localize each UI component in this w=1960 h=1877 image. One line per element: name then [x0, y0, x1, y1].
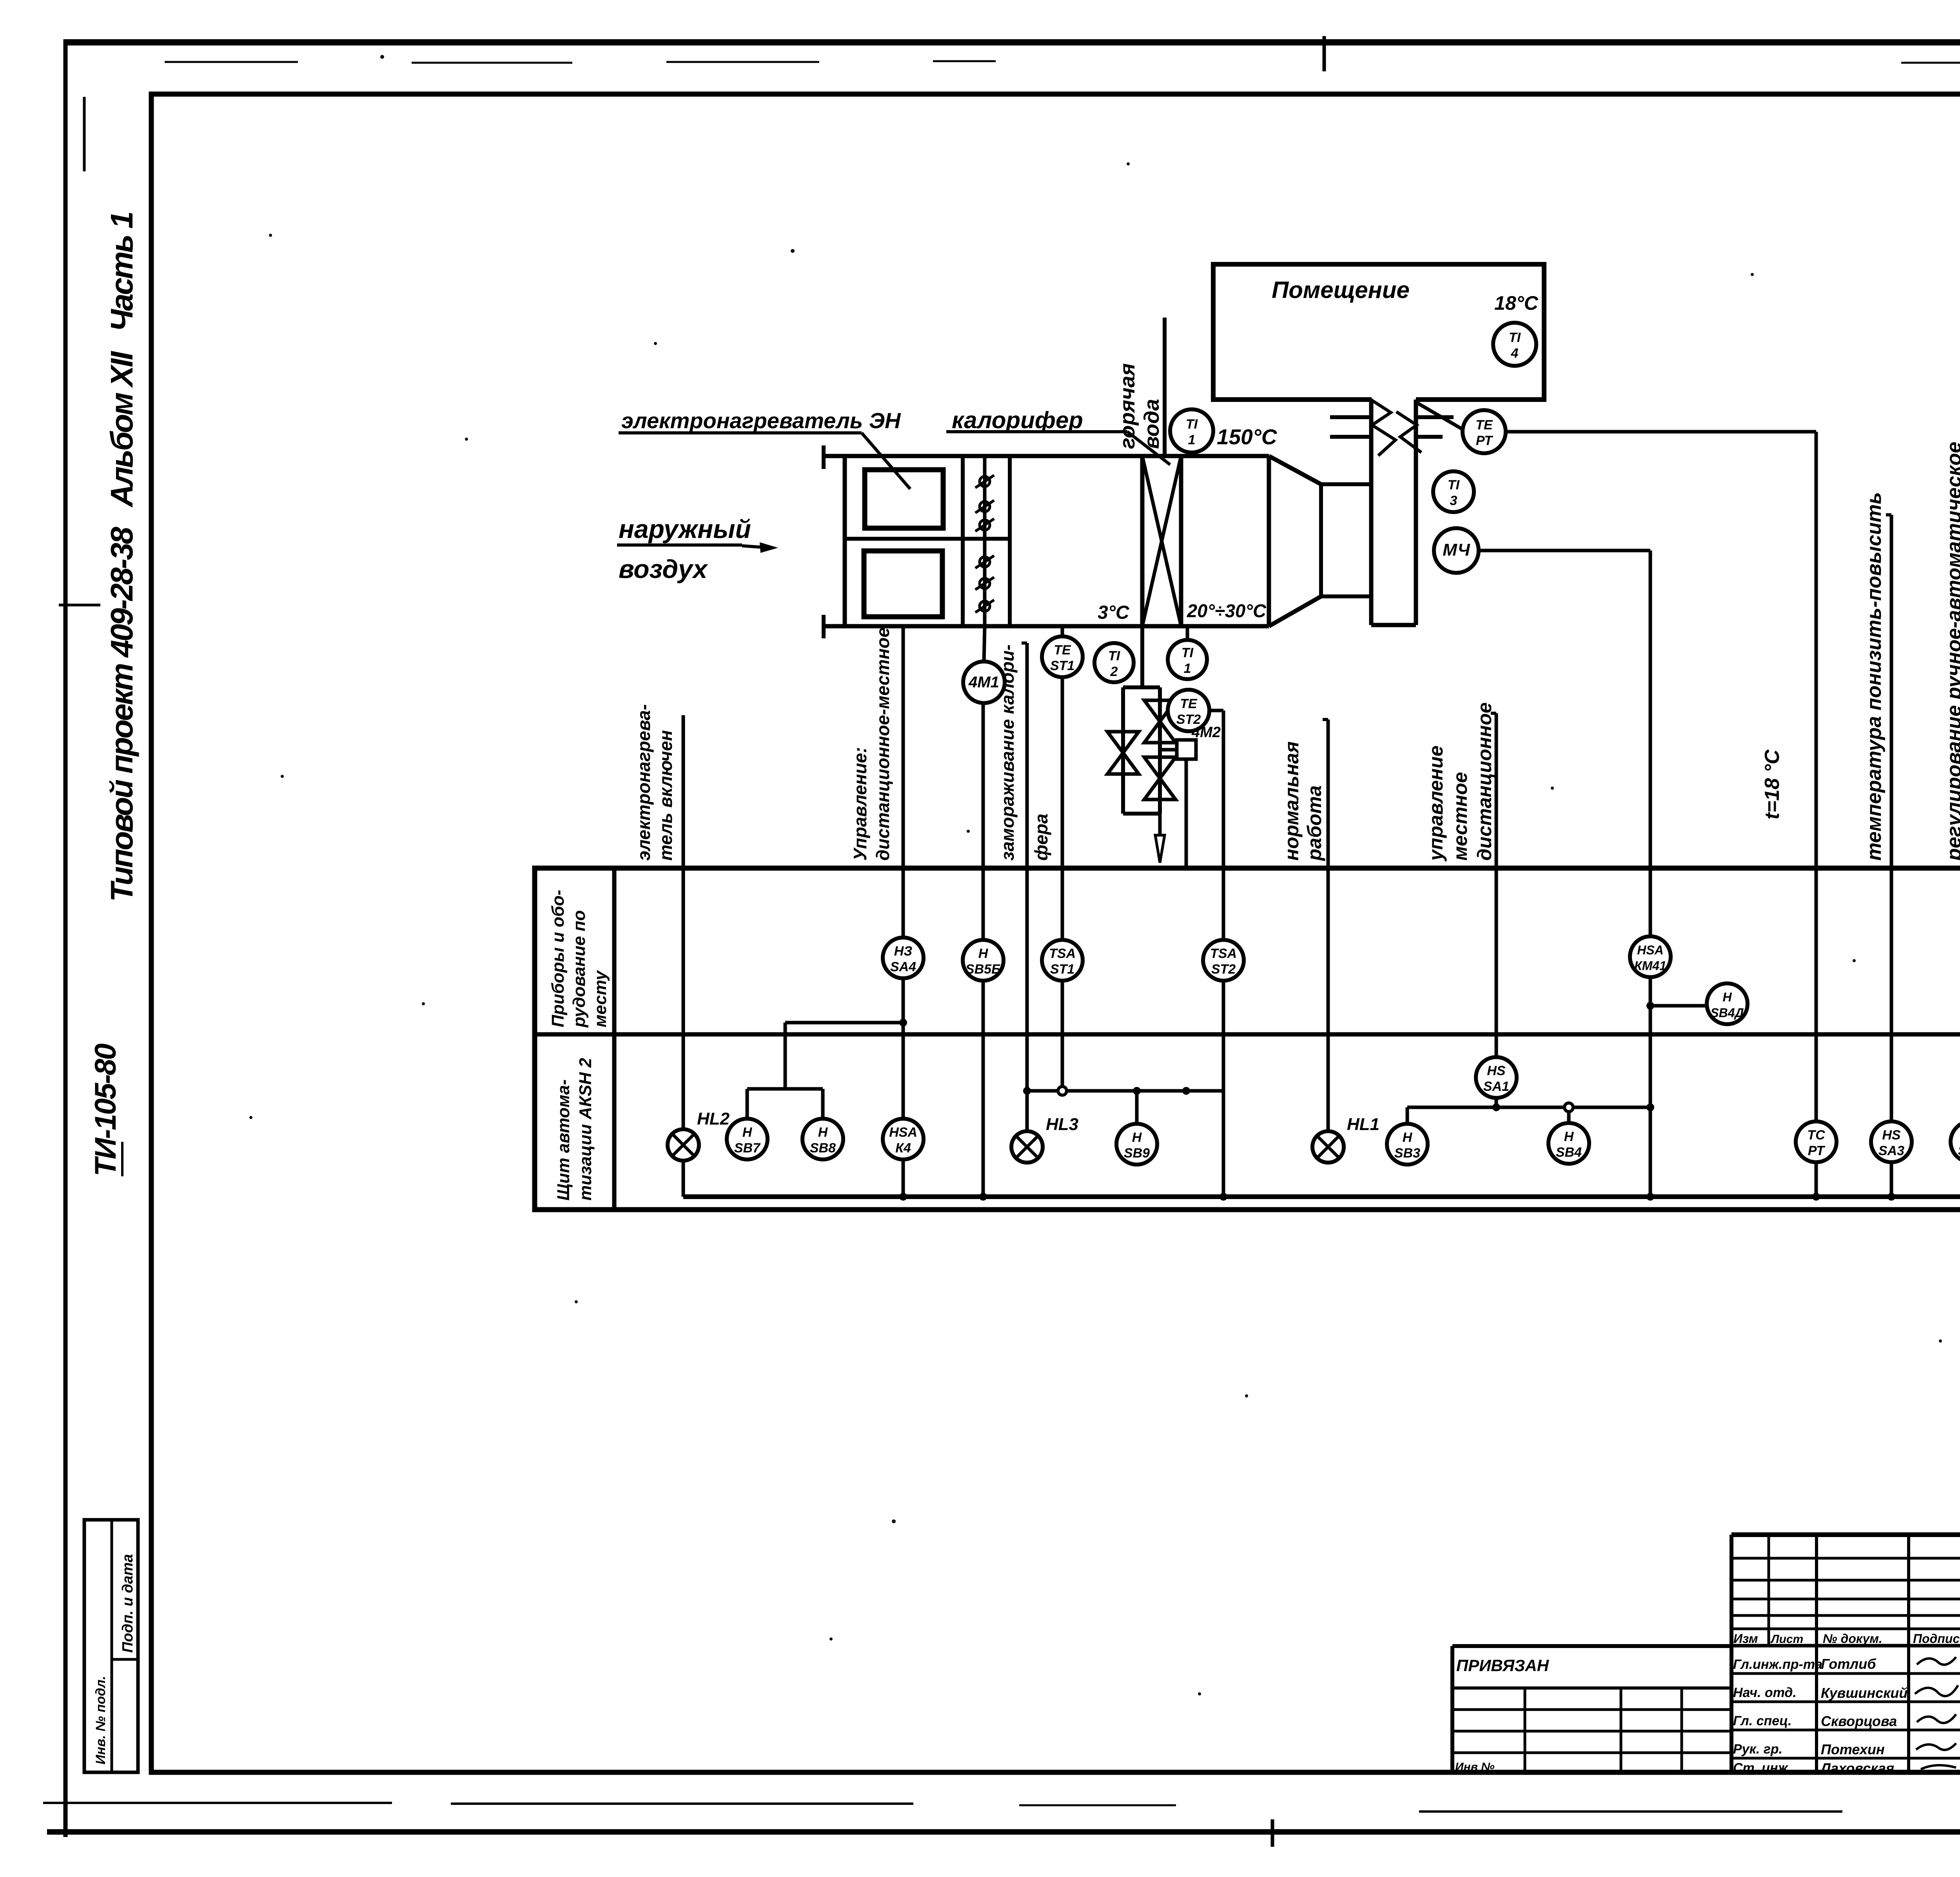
svg-text:ТSА: ТSА [1049, 946, 1076, 961]
instrument H SB8 [802, 1119, 843, 1159]
signatures [1917, 1657, 1956, 1665]
privyazan box [1452, 1644, 1731, 1648]
svg-text:ТI: ТI [1186, 417, 1198, 432]
instrument 4M1 [963, 661, 1005, 703]
duct break zigzag 2 [1396, 412, 1421, 452]
wall line left upper [1330, 415, 1371, 419]
instrument HS SA1 [1476, 1057, 1517, 1098]
heat exchanger left wall [1140, 456, 1145, 626]
svg-text:150°С: 150°С [1217, 425, 1278, 449]
signal line local control [1495, 713, 1498, 868]
wall line right lower [1416, 435, 1443, 439]
outlet duct top [1321, 482, 1371, 486]
svg-text:тель включен: тель включен [655, 730, 676, 861]
vertical duct bottom cap [1371, 623, 1416, 627]
svg-text:Н: Н [742, 1125, 753, 1140]
svg-text:месту: месту [591, 970, 610, 1027]
svg-text:нормальная: нормальная [1281, 741, 1303, 861]
svg-text:НS: НS [1882, 1128, 1901, 1143]
svg-text:КМ41: КМ41 [1634, 959, 1666, 973]
instrument TI1 air [1168, 640, 1207, 679]
svg-text:МЧ: МЧ [1443, 540, 1470, 560]
svg-text:SТ1: SТ1 [1050, 962, 1074, 977]
svg-text:Н: Н [818, 1125, 828, 1140]
svg-text:SА5: SА5 [1958, 1143, 1960, 1158]
title block outline [1731, 1532, 1960, 1537]
svg-text:температура понизить-повысить: температура понизить-повысить [1863, 492, 1886, 861]
instrument HZ SA4 [883, 938, 924, 978]
svg-text:HL2: HL2 [697, 1109, 730, 1128]
instrument HS SA5 [1951, 1121, 1960, 1162]
instrument NSA KM41 [1630, 936, 1671, 977]
hot water pipe [1163, 318, 1167, 456]
drain line [1158, 814, 1162, 836]
signal line normal work [1327, 720, 1330, 868]
svg-text:ТI: ТI [1448, 478, 1460, 492]
svg-text:ТI: ТI [1108, 649, 1121, 663]
sheet outer border left [64, 39, 68, 1837]
svg-text:SА3: SА3 [1878, 1143, 1904, 1158]
svg-text:SВ7: SВ7 [734, 1141, 761, 1156]
damper section right wall [1008, 456, 1012, 626]
signal line control dist-local [902, 626, 905, 868]
svg-text:Подпись: Подпись [1913, 1632, 1960, 1646]
svg-text:SВ9: SВ9 [1124, 1146, 1150, 1161]
svg-text:местное: местное [1449, 772, 1471, 861]
svg-text:РТ: РТ [1808, 1143, 1826, 1158]
signoff rows [1731, 1672, 1960, 1675]
signal line TE ST2 down [1222, 710, 1225, 868]
wire L11 to bus [1815, 868, 1818, 1197]
svg-text:t=18 °С: t=18 °С [1761, 749, 1784, 819]
svg-text:ТЕ: ТЕ [1475, 418, 1493, 432]
svg-text:№ докум.: № докум. [1823, 1632, 1882, 1646]
svg-text:Кувшинский: Кувшинский [1821, 1685, 1907, 1701]
instrument TI3 [1433, 471, 1474, 512]
svg-text:Потехин: Потехин [1821, 1741, 1885, 1757]
heater section divider [845, 537, 1010, 541]
svg-text:ТЕ: ТЕ [1180, 696, 1198, 711]
svg-text:НS: НS [1487, 1063, 1506, 1078]
svg-text:Готлиб: Готлиб [1821, 1656, 1877, 1672]
sheet outer border bottom [47, 1829, 1960, 1835]
wire L8 to lamp HL1 [1327, 868, 1330, 1149]
svg-text:SВ4Д: SВ4Д [1710, 1006, 1744, 1020]
heater EN upper element [865, 470, 943, 528]
svg-text:Н: Н [1403, 1130, 1413, 1145]
valve right pipe [1158, 687, 1162, 814]
signal line heater-on [682, 715, 685, 1133]
junction W3-L9 [1492, 1103, 1500, 1111]
table row divider [535, 1032, 1960, 1037]
svg-text:Нач. отд.: Нач. отд. [1733, 1685, 1797, 1700]
svg-text:НЗ: НЗ [894, 944, 913, 959]
svg-text:электронагреватель ЭН: электронагреватель ЭН [621, 408, 901, 433]
bus junction L2 [899, 1193, 907, 1201]
svg-text:НSА: НSА [889, 1125, 917, 1140]
pipe stub from HX [1140, 626, 1144, 687]
room box Помещение [1213, 264, 1544, 400]
AHU bottom line [824, 624, 1269, 629]
bus junction L7 [1220, 1193, 1227, 1201]
table label column divider [612, 868, 617, 1210]
instrument TE ST1 [1042, 636, 1083, 677]
svg-text:Щит автома-: Щит автома- [554, 1079, 573, 1201]
instrument MCH [1434, 528, 1479, 573]
svg-text:Управление:: Управление: [850, 747, 870, 861]
signal line TE ST1 down [1061, 677, 1064, 868]
duct break zigzag 1 [1369, 398, 1396, 456]
heater section right wall [961, 456, 965, 626]
svg-text:20°÷30°С: 20°÷30°С [1187, 600, 1267, 621]
wire L9 to W3 [1495, 868, 1498, 1107]
svg-text:4М1: 4М1 [968, 674, 999, 691]
wire L10 to bus [1649, 868, 1652, 1197]
wire L7 to bus [1222, 868, 1225, 1197]
vertical duct wall right [1414, 400, 1418, 625]
svg-text:ТSА: ТSА [1210, 946, 1237, 961]
stub SB4 [1567, 1107, 1571, 1125]
leader to TE RT [1417, 403, 1463, 430]
svg-text:фера: фера [1031, 814, 1051, 861]
stub SB9 [1135, 1091, 1139, 1125]
fold mark top [1323, 36, 1326, 71]
svg-text:Инв №: Инв № [1455, 1761, 1495, 1773]
svg-text:Н: Н [1564, 1129, 1574, 1144]
svg-text:Изм: Изм [1733, 1632, 1758, 1646]
lamp HL1 [1312, 1131, 1344, 1163]
instrument NSA K4 [883, 1119, 924, 1159]
transition top slant [1269, 456, 1321, 484]
MCH signal line [1479, 549, 1650, 552]
signal line temp raise [1890, 515, 1893, 868]
svg-text:Подп. и дата: Подп. и дата [120, 1554, 136, 1653]
svg-text:3°С: 3°С [1098, 602, 1130, 623]
svg-text:SТ1: SТ1 [1050, 658, 1074, 673]
instrument TSA ST1 [1042, 940, 1083, 981]
heater EN lower element [864, 551, 942, 617]
junction W2-L4 [1023, 1087, 1031, 1095]
svg-text:ТI: ТI [1509, 330, 1521, 345]
margin stamp box [84, 1520, 138, 1772]
svg-text:HL1: HL1 [1347, 1115, 1379, 1134]
wall line left lower [1330, 435, 1371, 439]
heat exchanger cross [1142, 456, 1181, 626]
bottom bus [683, 1194, 1960, 1199]
vertical duct wall left [1369, 400, 1374, 625]
svg-text:Типовой проект 409-28-38 А: Типовой проект 409-28-38 Альбом XII Част… [104, 213, 139, 902]
svg-text:Н: Н [978, 946, 989, 961]
TE RT signal line [1506, 430, 1816, 434]
fold mark left [59, 604, 100, 607]
lamp HL2 [668, 1129, 699, 1161]
svg-text:SТ2: SТ2 [1211, 962, 1236, 977]
open junction W2-L5 [1058, 1087, 1067, 1095]
wire L12 to bus [1890, 868, 1893, 1197]
svg-text:электронагрева-: электронагрева- [633, 704, 654, 861]
wire L5 to W2 [1061, 868, 1064, 1091]
svg-text:работа: работа [1303, 785, 1325, 861]
svg-text:калорифер: калорифер [952, 407, 1083, 433]
wall line right upper [1416, 415, 1454, 419]
svg-text:Лаховская: Лаховская [1820, 1760, 1894, 1776]
svg-text:1: 1 [1184, 661, 1191, 676]
wire L4 to lamp HL3 [1025, 868, 1029, 1149]
wire L3 full [982, 868, 985, 1197]
svg-text:НSА: НSА [1637, 943, 1664, 957]
svg-text:ТИ-105-80: ТИ-105-80 [89, 1043, 122, 1176]
drain arrow [1155, 835, 1165, 863]
junction bracket-L2 [899, 1019, 907, 1027]
open junction W3-SB4 [1564, 1103, 1573, 1112]
svg-text:замораживание калори-: замораживание калори- [997, 645, 1018, 861]
instrument TE RT [1463, 410, 1506, 453]
outside air arrow [742, 546, 764, 547]
svg-text:К4: К4 [895, 1141, 911, 1156]
svg-text:Инв. № подл.: Инв. № подл. [93, 1676, 108, 1764]
svg-text:Ст. инж.: Ст. инж. [1733, 1761, 1791, 1775]
instrument TE ST2 [1168, 690, 1209, 731]
instrument TI1 hot water [1170, 409, 1213, 452]
bus junction L12 [1887, 1193, 1895, 1201]
svg-text:ТС: ТС [1807, 1128, 1825, 1143]
TE ST2 right link [1209, 709, 1223, 712]
svg-text:SА1: SА1 [1483, 1079, 1509, 1094]
AHU right wall [1267, 456, 1271, 626]
svg-text:воздух: воздух [619, 554, 708, 583]
svg-text:SВ8: SВ8 [810, 1141, 836, 1156]
svg-text:3: 3 [1450, 493, 1457, 508]
svg-text:управление: управление [1425, 745, 1447, 862]
bus junction L11 [1812, 1193, 1820, 1201]
lamp HL3 [1011, 1131, 1043, 1163]
signal line 4M1 down [982, 703, 985, 868]
junction SB4D-L10 [1646, 1002, 1654, 1010]
svg-text:дистанционное-местное: дистанционное-местное [873, 627, 893, 861]
bus junction L10 [1646, 1193, 1654, 1201]
outlet duct bottom [1321, 594, 1371, 598]
svg-text:тизации АКSН 2: тизации АКSН 2 [576, 1058, 595, 1201]
junction W2-SB9 [1133, 1087, 1141, 1095]
instrument H SB5B [963, 940, 1004, 981]
svg-text:горячая: горячая [1116, 363, 1139, 449]
sheet outer border top [65, 39, 1960, 45]
svg-text:Лист: Лист [1770, 1633, 1803, 1646]
wire SB4D stub [1650, 1004, 1706, 1008]
svg-text:18°С: 18°С [1494, 292, 1539, 314]
svg-text:дистанционное: дистанционное [1474, 702, 1495, 861]
bus junction L3 [979, 1193, 987, 1201]
junction W3-L10 [1646, 1103, 1654, 1111]
svg-text:Приборы и обо-: Приборы и обо- [548, 890, 568, 1027]
table frame [535, 868, 1960, 1210]
svg-text:вода: вода [1140, 399, 1163, 449]
actuator 4M2 box [1177, 740, 1196, 759]
damper blades line [983, 456, 987, 626]
svg-text:4: 4 [1511, 346, 1519, 361]
transition throat [1319, 484, 1323, 596]
AHU top line [824, 454, 1269, 458]
svg-text:Помещение: Помещение [1272, 277, 1410, 303]
instrument TC RT [1796, 1121, 1837, 1162]
svg-text:регулирование ручное-автоматич: регулирование ручное-автоматическое [1943, 442, 1960, 861]
valve bypass top connector [1123, 685, 1160, 689]
valve V1 left [1107, 732, 1139, 774]
svg-text:ТI: ТI [1181, 645, 1194, 660]
svg-text:наружный: наружный [619, 514, 751, 543]
svg-text:ПРИВЯЗАН: ПРИВЯЗАН [1456, 1656, 1550, 1675]
AHU bottom end tick [822, 615, 826, 638]
fold mark bottom [1271, 1819, 1274, 1847]
instrument TSA ST2 [1203, 940, 1244, 981]
wire L2 full [902, 868, 905, 1197]
svg-text:ТЕ: ТЕ [1054, 643, 1071, 658]
svg-text:Н: Н [1132, 1130, 1142, 1145]
AHU left wall [843, 456, 847, 626]
bracket SB7 SB8 [747, 1087, 823, 1091]
svg-text:Гл.инж.пр-та: Гл.инж.пр-та [1733, 1657, 1822, 1672]
transition bottom slant [1269, 596, 1321, 626]
wire L1 to bus [682, 1133, 685, 1197]
wire W3 [1407, 1106, 1650, 1109]
valve V3 right lower [1144, 757, 1176, 799]
svg-text:Гл. спец.: Гл. спец. [1733, 1713, 1792, 1728]
signal line actuator down [1185, 759, 1188, 868]
heat exchanger right wall [1179, 456, 1183, 626]
instrument H SB3 [1387, 1124, 1428, 1165]
instrument H SB9 [1116, 1124, 1157, 1165]
svg-text:SВ5Б: SВ5Б [965, 962, 1001, 977]
leader kalorifer [1127, 432, 1170, 465]
AHU top end tick [822, 445, 826, 469]
instrument H SB4D [1707, 983, 1748, 1024]
svg-text:SА4: SА4 [890, 959, 916, 974]
valve V2 right upper [1144, 700, 1176, 743]
signal line freeze [1025, 643, 1029, 868]
svg-text:SВ3: SВ3 [1394, 1146, 1420, 1161]
svg-text:рудование по: рудование по [570, 910, 589, 1028]
valve left pipe [1121, 687, 1125, 814]
revision grid [1731, 1557, 1960, 1560]
svg-text:HL3: HL3 [1046, 1115, 1078, 1134]
svg-text:Рук. гр.: Рук. гр. [1733, 1742, 1782, 1757]
leader electro heater [862, 433, 910, 489]
svg-text:Н: Н [1722, 990, 1732, 1004]
scan specks [380, 55, 384, 59]
svg-text:РТ: РТ [1476, 433, 1494, 448]
svg-text:2: 2 [1110, 664, 1118, 679]
wire W2 [1027, 1089, 1223, 1093]
instrument H SB7 [727, 1119, 768, 1159]
actuator link [1160, 748, 1177, 752]
instrument TI2 [1094, 643, 1134, 682]
valve bypass bottom connector [1123, 812, 1160, 816]
svg-text:1: 1 [1188, 432, 1196, 447]
svg-text:Скворцова: Скворцова [1821, 1713, 1897, 1729]
svg-text:SВ4: SВ4 [1556, 1145, 1582, 1160]
junction W2-L6 [1182, 1087, 1190, 1095]
instrument HS SA3 [1871, 1121, 1912, 1162]
instrument H SB4 [1548, 1123, 1589, 1164]
instrument TI4 [1493, 323, 1536, 366]
